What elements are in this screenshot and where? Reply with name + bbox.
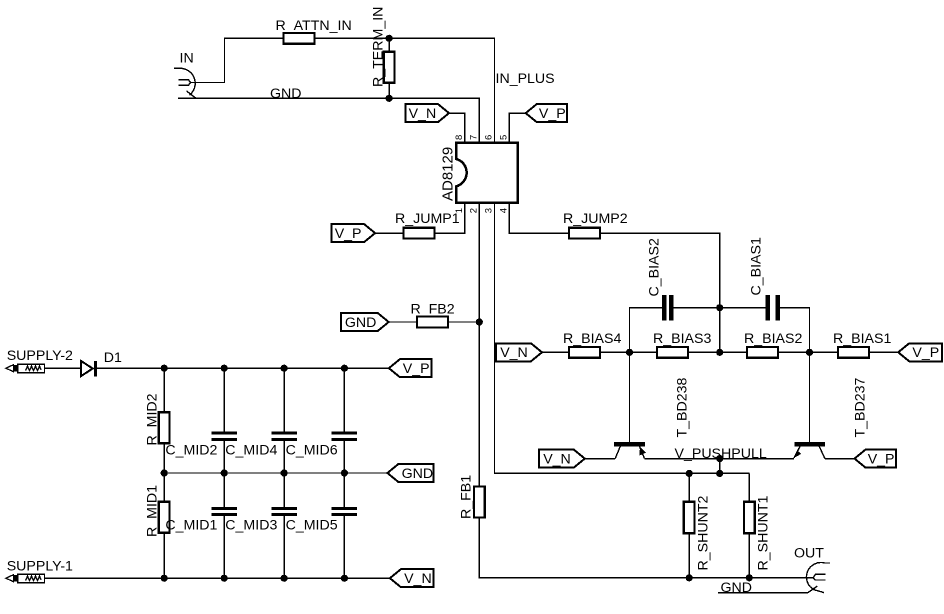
svg-text:V_N: V_N xyxy=(409,106,437,122)
wire C_MID3 column xyxy=(283,473,285,578)
svg-text:IN_PLUS: IN_PLUS xyxy=(496,71,555,87)
flag V_N (pin 8) xyxy=(406,104,449,122)
wire R_BIAS2 to R_BIAS1 xyxy=(778,351,838,353)
svg-text:R_JUMP2: R_JUMP2 xyxy=(563,211,628,227)
junction R_FB2 / pin 2 xyxy=(476,318,483,325)
junction GND rail x164 xyxy=(161,469,168,476)
svg-text:V_P: V_P xyxy=(868,451,895,467)
junction V_P rail x344 xyxy=(341,365,348,372)
junction V_N rail x344 xyxy=(341,575,348,582)
wire V_N flag to pin 8 xyxy=(449,113,465,142)
junction GND rail x224 xyxy=(221,469,228,476)
junction base T_BD237 xyxy=(806,349,813,356)
svg-text:AD8129: AD8129 xyxy=(440,147,457,201)
resistor R_MID2 xyxy=(159,412,170,443)
resistor R_FB1 xyxy=(474,487,485,518)
flag V_N (supply) xyxy=(390,569,434,587)
svg-text:R_MID1: R_MID1 xyxy=(145,485,161,537)
resistor R_JUMP2 xyxy=(569,228,600,239)
svg-text:R_TERM_IN: R_TERM_IN xyxy=(370,7,386,87)
junction R_TERM_IN top xyxy=(386,35,393,42)
svg-text:D1: D1 xyxy=(104,350,122,366)
flag GND (R_FB2) xyxy=(341,313,389,331)
wire V_N rail xyxy=(45,577,390,579)
svg-text:R_FB1: R_FB1 xyxy=(459,475,475,519)
connector IN xyxy=(174,68,196,98)
resistor R_SHUNT2 xyxy=(684,502,695,534)
junction V_P rail x224 xyxy=(221,365,228,372)
resistor R_BIAS1 xyxy=(838,347,869,358)
wire C_MID1 column xyxy=(223,473,225,578)
svg-text:2: 2 xyxy=(468,208,479,213)
junction V_N rail x164 xyxy=(161,575,168,582)
wire R_FB2 to feedback net xyxy=(448,321,479,323)
svg-text:V_N: V_N xyxy=(500,345,528,361)
svg-text:R_SHUNT1: R_SHUNT1 xyxy=(756,495,772,570)
wire R_JUMP2 to bias network xyxy=(600,233,720,352)
diode D1 xyxy=(81,361,97,377)
capacitor C_MID3 xyxy=(271,507,296,516)
wire pin 2 feedback net through R_FB1 to output xyxy=(479,203,813,578)
connector OUT xyxy=(806,562,830,592)
svg-text:GND: GND xyxy=(721,580,753,596)
svg-text:V_P: V_P xyxy=(335,226,362,242)
resistor R_TERM_IN xyxy=(384,52,395,83)
svg-text:GND: GND xyxy=(402,466,434,482)
resistor R_BIAS4 xyxy=(569,347,600,358)
svg-text:GND: GND xyxy=(270,86,302,102)
svg-text:V_PUSHPULL: V_PUSHPULL xyxy=(675,446,767,462)
svg-text:C_MID3: C_MID3 xyxy=(225,518,277,534)
svg-text:8: 8 xyxy=(454,135,465,140)
connector SUPPLY-1 xyxy=(6,574,45,583)
resistor R_FB2 xyxy=(417,317,448,328)
wire SUPPLY-2 to D1 xyxy=(45,367,81,369)
svg-text:C_BIAS2: C_BIAS2 xyxy=(647,238,663,296)
wire C_MID6 column xyxy=(343,368,345,473)
wire V_P rail xyxy=(97,367,389,369)
junction C_BIAS joint xyxy=(716,304,723,311)
svg-text:IN: IN xyxy=(180,51,194,67)
wire R_SHUNT1 stubs xyxy=(748,473,750,577)
junction GND rail x284 xyxy=(281,469,288,476)
connector SUPPLY-2 xyxy=(6,364,45,373)
svg-text:5: 5 xyxy=(499,135,510,140)
wire R_ATTN_IN to pin 6 (IN_PLUS net) xyxy=(314,38,494,142)
svg-text:C_MID6: C_MID6 xyxy=(286,443,338,459)
wire R_BIAS4 to R_BIAS3 xyxy=(600,351,657,353)
wire R_TERM_IN stubs xyxy=(388,38,390,98)
capacitor C_MID6 xyxy=(332,432,357,441)
svg-text:R_FB2: R_FB2 xyxy=(411,302,455,318)
resistor R_JUMP1 xyxy=(403,228,434,239)
transistor Q1 T_BD238 (PNP) xyxy=(614,352,646,458)
svg-text:7: 7 xyxy=(468,135,479,140)
svg-text:R_BIAS1: R_BIAS1 xyxy=(833,331,891,347)
resistor R_MID1 xyxy=(159,502,170,533)
flag V_P (bias row) xyxy=(898,343,942,361)
svg-text:V_P: V_P xyxy=(403,361,430,377)
svg-text:R_BIAS2: R_BIAS2 xyxy=(744,331,802,347)
svg-text:SUPPLY-1: SUPPLY-1 xyxy=(7,559,73,575)
svg-text:C_MID1: C_MID1 xyxy=(165,518,217,534)
wire GND mid rail xyxy=(164,472,387,474)
svg-text:V_P: V_P xyxy=(912,345,939,361)
wire V_N to R_BIAS4 xyxy=(542,351,569,353)
wire pin 4 to R_JUMP2 xyxy=(509,203,569,233)
capacitor C_MID2 xyxy=(212,432,237,441)
wire T_BD237 collector to V_P flag xyxy=(825,458,855,460)
wire pin 3 to shunt row xyxy=(495,203,750,474)
wire GND shield of OUT xyxy=(718,592,808,594)
flag V_P (pin 5) xyxy=(526,104,567,122)
wire C_MID4 column xyxy=(283,368,285,473)
resistor R_BIAS2 xyxy=(747,347,778,358)
flag V_N (T_BD238) xyxy=(539,450,585,468)
junction V_N rail x224 xyxy=(221,575,228,582)
wire GND flag to R_FB2 xyxy=(389,321,417,323)
svg-text:GND: GND xyxy=(345,315,377,331)
flag V_P (T_BD237) xyxy=(855,450,897,468)
wire C_MID5 column xyxy=(343,473,345,578)
svg-text:C_MID4: C_MID4 xyxy=(225,443,277,459)
wire R_MID1 column xyxy=(163,473,165,578)
wire R_BIAS3 to R_BIAS2 xyxy=(688,351,747,353)
flag V_P (R_JUMP1) xyxy=(332,224,376,242)
resistor R_ATTN_IN xyxy=(283,33,314,44)
capacitor C_MID1 xyxy=(212,507,237,516)
op-amp U1 AD8129 xyxy=(456,143,518,203)
junction R_SHUNT1 bottom xyxy=(746,574,753,581)
wire C_MID2 column xyxy=(223,368,225,473)
junction bias mid xyxy=(716,349,723,356)
junction V_P rail x164 xyxy=(161,365,168,372)
svg-text:T_BD237: T_BD237 xyxy=(853,377,869,437)
resistor R_SHUNT1 xyxy=(744,502,755,534)
svg-text:C_MID2: C_MID2 xyxy=(165,443,217,459)
svg-text:SUPPLY-2: SUPPLY-2 xyxy=(7,348,73,364)
flag V_P (supply) xyxy=(389,359,432,377)
svg-text:3: 3 xyxy=(484,208,495,213)
svg-text:C_MID5: C_MID5 xyxy=(286,518,338,534)
flag GND (supply mid) xyxy=(387,464,433,482)
junction base T_BD238 xyxy=(626,349,633,356)
capacitor C_MID5 xyxy=(332,507,357,516)
svg-text:R_BIAS3: R_BIAS3 xyxy=(653,331,711,347)
capacitor C_BIAS2 xyxy=(662,295,674,321)
transistor Q2 T_BD237 (NPN) xyxy=(794,352,825,458)
capacitor C_BIAS1 xyxy=(765,295,780,321)
svg-text:V_N: V_N xyxy=(404,571,432,587)
wire bias capacitor row xyxy=(630,308,810,353)
junction V_N rail x284 xyxy=(281,575,288,582)
svg-text:T_BD238: T_BD238 xyxy=(675,377,691,437)
svg-text:V_P: V_P xyxy=(539,106,566,122)
junction GND rail x344 xyxy=(341,469,348,476)
svg-text:R_MID2: R_MID2 xyxy=(145,393,161,445)
junction pushpull stub on shunt wire xyxy=(716,470,723,477)
svg-text:OUT: OUT xyxy=(794,546,824,562)
svg-text:6: 6 xyxy=(484,135,495,140)
svg-text:R_SHUNT2: R_SHUNT2 xyxy=(696,495,712,570)
resistor R_BIAS3 xyxy=(657,347,688,358)
flag V_N (bias row) xyxy=(496,343,542,361)
junction V_P rail x284 xyxy=(281,365,288,372)
wire T_BD238 collector to V_N flag xyxy=(585,458,615,460)
svg-text:R_BIAS4: R_BIAS4 xyxy=(563,331,621,347)
junction R_SHUNT2 bottom xyxy=(686,574,693,581)
wire R_JUMP1 to V_P flag xyxy=(375,232,403,234)
wire R_BIAS1 to V_P flag xyxy=(869,351,898,353)
svg-text:C_BIAS1: C_BIAS1 xyxy=(749,237,765,295)
wire IN pin to R_ATTN_IN xyxy=(190,38,283,82)
svg-text:R_ATTN_IN: R_ATTN_IN xyxy=(276,18,352,34)
svg-text:4: 4 xyxy=(499,208,510,213)
wire V_P flag to pin 5 xyxy=(509,113,525,142)
capacitor C_MID4 xyxy=(271,432,296,441)
wire pin 1 to R_JUMP1 xyxy=(435,203,464,233)
wire GND from IN shield to pin 7 xyxy=(178,98,479,142)
wire V_PUSHPULL xyxy=(645,459,795,474)
wire R_MID2 column xyxy=(163,368,165,473)
svg-text:V_N: V_N xyxy=(543,451,571,467)
junction V_PUSHPULL xyxy=(716,455,723,462)
junction R_TERM_IN bottom xyxy=(386,95,393,102)
svg-text:R_JUMP1: R_JUMP1 xyxy=(395,211,460,227)
wire R_SHUNT2 stubs xyxy=(688,473,690,577)
junction R_SHUNT2 top xyxy=(686,470,693,477)
